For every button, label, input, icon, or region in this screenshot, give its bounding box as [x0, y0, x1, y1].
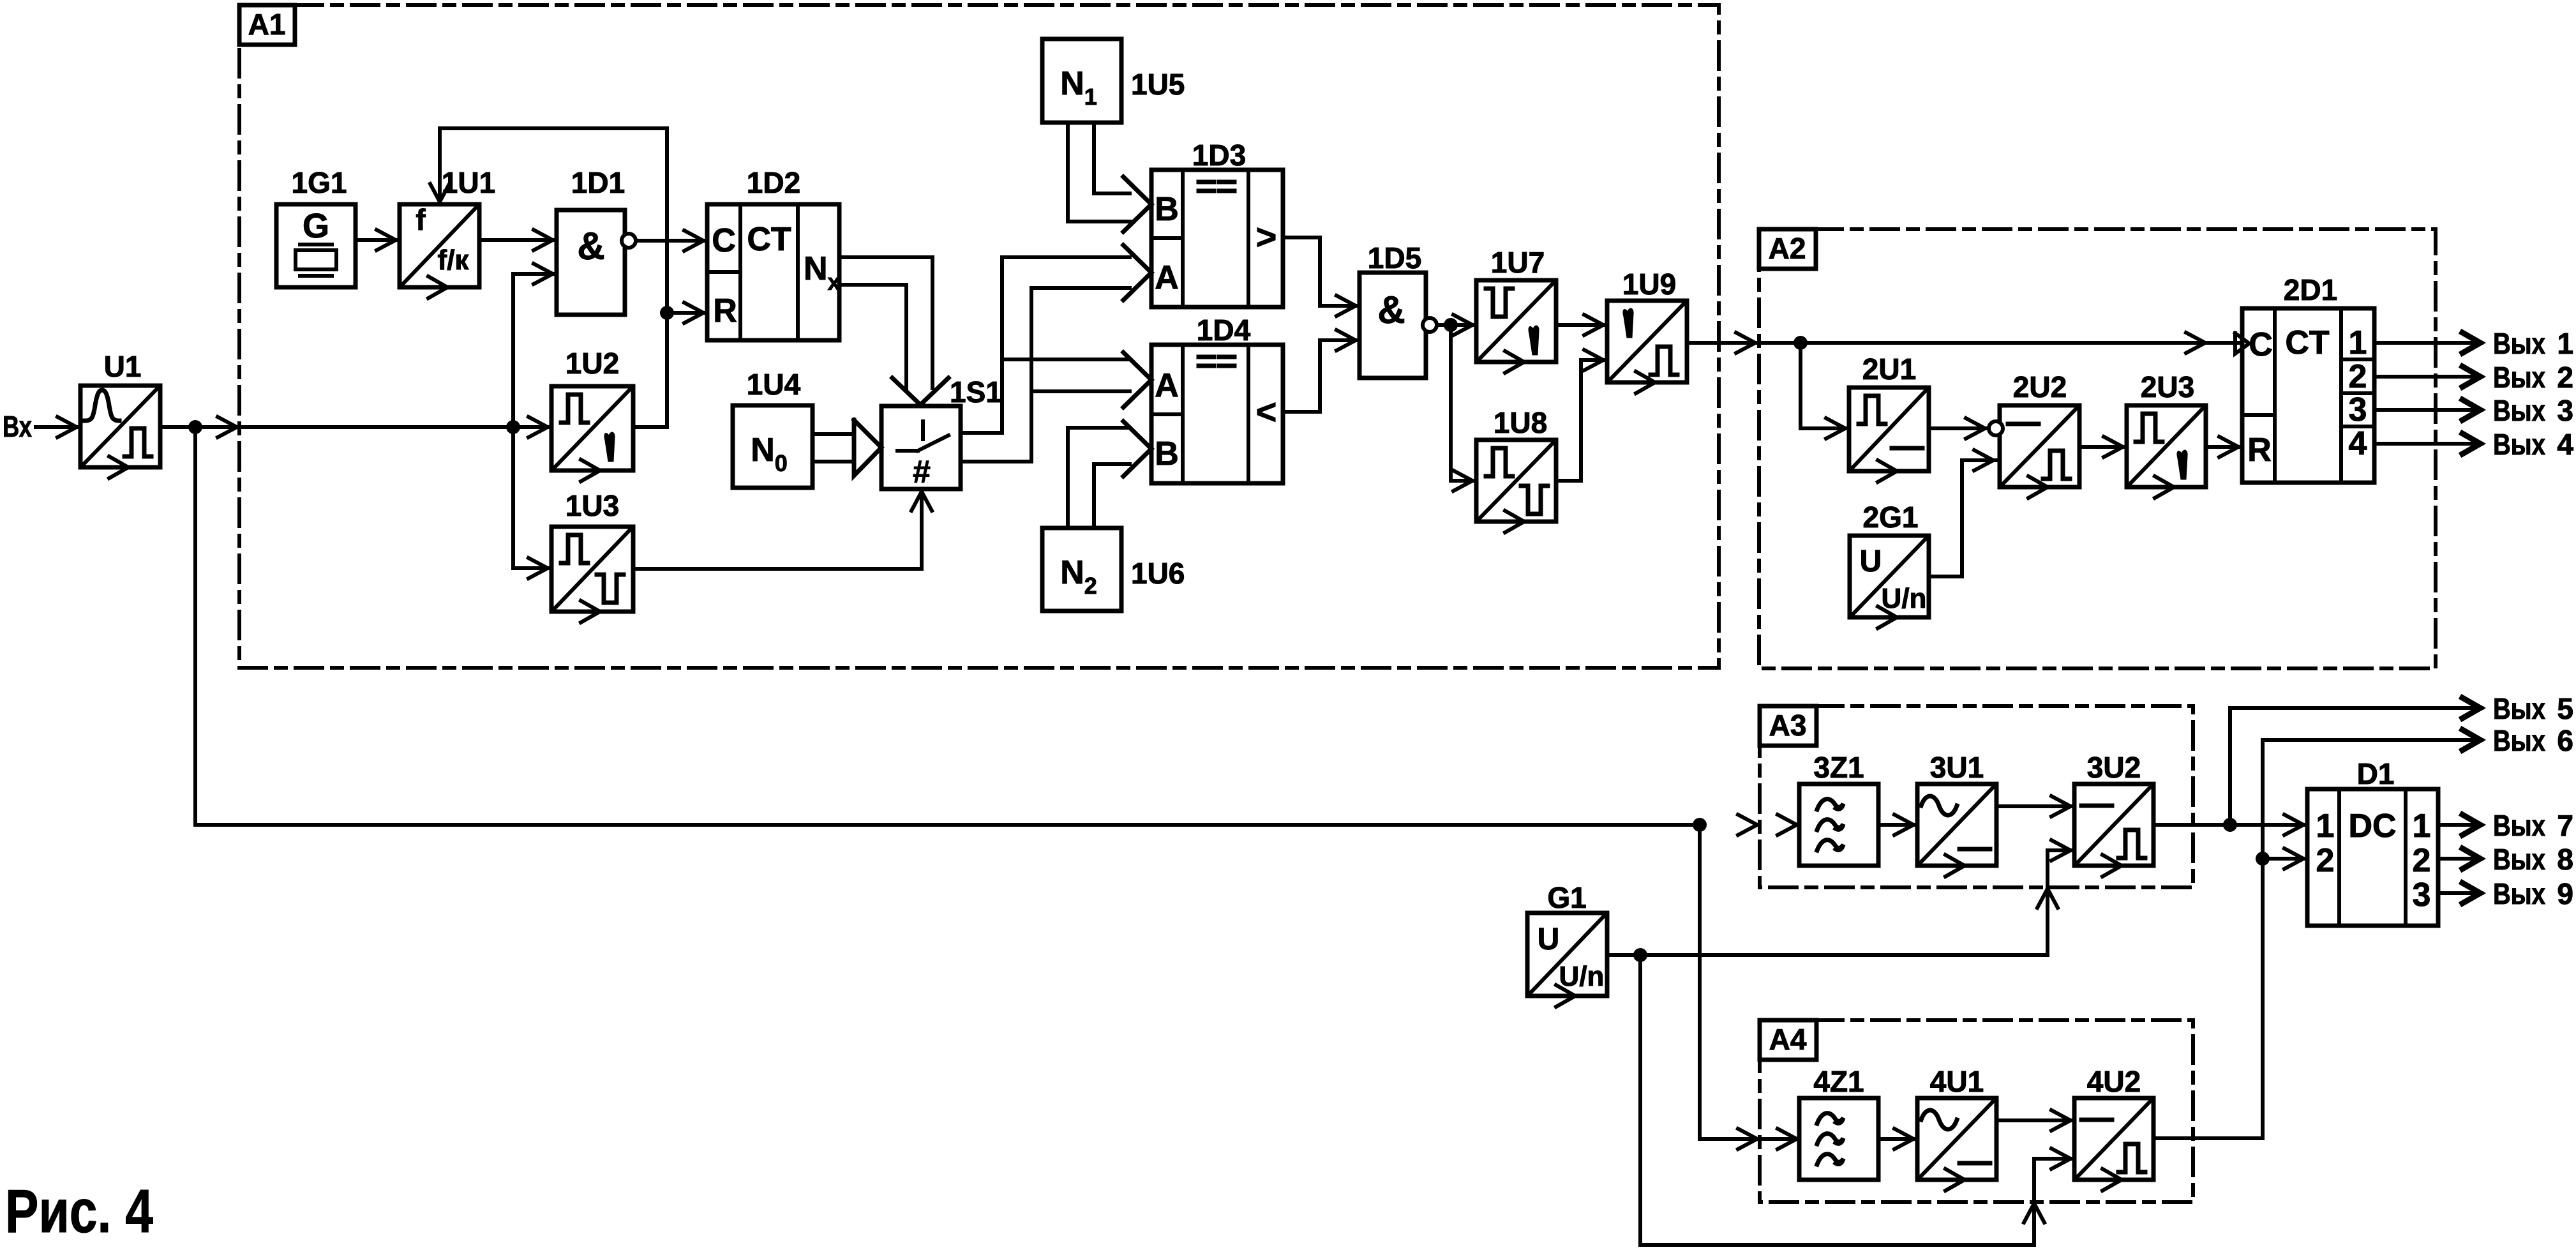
svg-text:Вых: Вых	[2493, 877, 2545, 910]
svg-text:3U2: 3U2	[2087, 751, 2141, 784]
svg-text:C: C	[712, 222, 736, 259]
svg-text:DC: DC	[2348, 808, 2396, 845]
svg-text:2: 2	[2413, 842, 2431, 879]
svg-text:Вх: Вх	[3, 410, 32, 443]
svg-text:CT: CT	[747, 221, 791, 258]
svg-text:U/n: U/n	[1559, 961, 1605, 992]
svg-text:Вых: Вых	[2493, 692, 2545, 725]
svg-text:R: R	[713, 292, 737, 329]
svg-text:2D1: 2D1	[2284, 273, 2337, 306]
svg-text:U1: U1	[104, 350, 142, 383]
svg-text:1U4: 1U4	[747, 368, 801, 401]
svg-text:A: A	[1155, 367, 1179, 404]
svg-text:G1: G1	[1547, 881, 1586, 914]
svg-text:5: 5	[2557, 692, 2573, 725]
svg-text:>: >	[1256, 216, 1277, 257]
svg-text:Рис. 4: Рис. 4	[5, 1177, 153, 1246]
svg-text:1: 1	[2349, 324, 2367, 361]
svg-text:4U1: 4U1	[1930, 1065, 1984, 1098]
svg-text:1: 1	[2557, 327, 2573, 360]
svg-text:<: <	[1256, 391, 1277, 432]
svg-text:#: #	[913, 454, 931, 490]
svg-text:A4: A4	[1769, 1023, 1807, 1056]
svg-text:G: G	[303, 207, 329, 245]
svg-text:1D2: 1D2	[747, 166, 800, 199]
svg-text:1U3: 1U3	[565, 489, 619, 522]
svg-text:A: A	[1155, 259, 1179, 296]
svg-text:1G1: 1G1	[292, 166, 347, 199]
svg-text:2G1: 2G1	[1863, 501, 1919, 534]
svg-text:1U2: 1U2	[565, 347, 619, 380]
svg-text:A1: A1	[248, 8, 286, 41]
svg-text:3: 3	[2413, 877, 2431, 914]
svg-text:1U8: 1U8	[1494, 406, 1547, 439]
svg-text:9: 9	[2557, 877, 2573, 910]
svg-text:4: 4	[2349, 425, 2367, 462]
svg-text:Вых: Вых	[2493, 394, 2545, 427]
svg-text:2: 2	[2316, 842, 2335, 879]
svg-text:U: U	[1860, 545, 1882, 578]
svg-text:A2: A2	[1769, 232, 1806, 265]
svg-text:C: C	[2249, 326, 2273, 363]
svg-text:2: 2	[2557, 361, 2573, 394]
svg-text:3: 3	[2557, 394, 2573, 427]
svg-text:2U3: 2U3	[2141, 370, 2194, 403]
svg-text:1D3: 1D3	[1192, 139, 1246, 172]
svg-text:3Z1: 3Z1	[1813, 751, 1864, 784]
svg-text:1D1: 1D1	[571, 166, 625, 199]
svg-text:Вых: Вых	[2493, 361, 2545, 394]
svg-text:1U6: 1U6	[1131, 557, 1185, 590]
svg-text:2U2: 2U2	[2013, 370, 2067, 403]
svg-text:1D4: 1D4	[1197, 313, 1251, 347]
svg-text:4U2: 4U2	[2087, 1065, 2141, 1098]
svg-text:Вых: Вых	[2493, 724, 2545, 757]
svg-text:&: &	[577, 225, 604, 267]
svg-text:1S1: 1S1	[950, 375, 1002, 409]
svg-text:1U7: 1U7	[1491, 246, 1545, 279]
svg-text:4: 4	[2557, 428, 2573, 461]
svg-text:3: 3	[2349, 391, 2367, 428]
svg-text:B: B	[1155, 191, 1179, 228]
svg-text:Вых: Вых	[2493, 843, 2545, 876]
svg-text:1: 1	[2413, 808, 2431, 845]
svg-text:7: 7	[2557, 809, 2573, 842]
svg-text:2: 2	[2349, 358, 2367, 395]
svg-text:B: B	[1155, 435, 1179, 472]
svg-text:U: U	[1538, 922, 1560, 956]
svg-text:A3: A3	[1769, 709, 1807, 742]
svg-text:f/к: f/к	[438, 245, 470, 276]
svg-text:U/n: U/n	[1882, 583, 1927, 614]
svg-text:3U1: 3U1	[1930, 751, 1984, 784]
svg-text:6: 6	[2557, 724, 2573, 757]
svg-text:2U1: 2U1	[1862, 352, 1916, 386]
svg-text:1U5: 1U5	[1131, 68, 1185, 101]
svg-text:Вых: Вых	[2493, 428, 2545, 461]
svg-text:R: R	[2247, 432, 2272, 469]
svg-text:1U9: 1U9	[1622, 267, 1676, 301]
svg-text:CT: CT	[2285, 324, 2330, 361]
svg-text:Вых: Вых	[2493, 809, 2545, 842]
svg-text:1: 1	[2316, 808, 2335, 845]
svg-text:4Z1: 4Z1	[1813, 1065, 1864, 1098]
svg-text:&: &	[1377, 289, 1405, 331]
svg-text:D1: D1	[2357, 757, 2395, 790]
svg-text:Вых: Вых	[2493, 327, 2545, 360]
svg-text:f: f	[416, 203, 426, 236]
svg-text:1U1: 1U1	[442, 166, 495, 199]
svg-text:8: 8	[2557, 843, 2573, 876]
svg-text:1D5: 1D5	[1368, 241, 1421, 275]
